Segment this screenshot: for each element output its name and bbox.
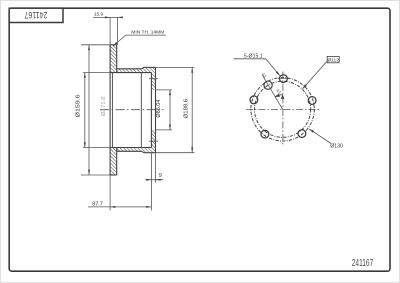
- bump top slope: [142, 67, 144, 68]
- svg-text:Ø159.6: Ø159.6: [76, 94, 82, 117]
- angle arc arrow right: [281, 94, 285, 99]
- ring right face top: [116, 45, 118, 73]
- vertical centerline right view: [282, 71, 284, 145]
- svg-text:15.9: 15.9: [94, 11, 104, 17]
- dimension 87.7 extension left: [109, 175, 111, 211]
- dimension D271.8 line: [88, 45, 90, 175]
- flange bottom edge: [144, 152, 156, 154]
- dimension D188.6 extension bottom: [156, 152, 195, 154]
- arrow 15.9 right: [118, 16, 123, 18]
- bolt hole upper right: [308, 97, 316, 105]
- dimension D159.6 line: [84, 73, 86, 148]
- hole tick top: [278, 78, 289, 80]
- angle arc arrow left: [275, 94, 280, 97]
- arrow D85.04 top: [169, 90, 171, 95]
- hatched region: friction ring bottom: [110, 148, 117, 176]
- arrow D159.6 top: [84, 73, 86, 78]
- svg-text:Ø112: Ø112: [328, 58, 340, 64]
- svg-text:Ø188.6: Ø188.6: [184, 99, 190, 119]
- svg-text:9: 9: [159, 173, 162, 179]
- leader 5-D15.1: [234, 59, 280, 76]
- hatched region: web bottom: [117, 148, 156, 153]
- arrow 9 left: [146, 179, 151, 181]
- ring left face: [109, 45, 111, 175]
- dimension D271.8 extension bottom: [81, 174, 110, 176]
- dimension D159.6 extension top: [83, 72, 110, 74]
- hatched region: friction ring top: [110, 45, 117, 73]
- bolt hole top: [280, 75, 288, 83]
- bolt hole upper left: [250, 96, 258, 104]
- arrow D188.6 top: [191, 67, 193, 72]
- bolt hole axis tick top: [149, 78, 158, 80]
- leader D112: [303, 61, 328, 89]
- bolt hole axis tick bottom: [149, 140, 158, 142]
- dimension D85.04 line: [169, 90, 171, 130]
- hatched region: web top: [117, 67, 156, 72]
- web bottom inner edge: [110, 147, 151, 149]
- dimension 15.9 extension right: [117, 17, 119, 44]
- arrows left view: [84, 16, 193, 208]
- web top inner edge: [110, 72, 151, 74]
- web bottom outer edge: [117, 150, 142, 152]
- dimension 15.9 line: [93, 16, 122, 18]
- arrow D85.04 bottom: [169, 125, 171, 130]
- arrow 87.7 left: [110, 206, 115, 208]
- circle Ø130: [251, 78, 314, 141]
- dimension 15.9 extension left: [109, 17, 111, 44]
- centerline left view: [100, 109, 164, 111]
- dimension 9 extension left / 87.7 extension right: [150, 153, 152, 211]
- dimension D85.04 extension top: [156, 89, 173, 91]
- leader D112 arrow: [303, 84, 307, 89]
- flange top edge: [144, 66, 156, 68]
- bolt circle Ø112: [255, 81, 311, 137]
- bump bottom slope: [142, 151, 144, 152]
- ring bottom edge: [110, 174, 117, 176]
- dimension D188.6 line: [191, 67, 193, 152]
- arrow D188.6 bottom: [191, 147, 193, 152]
- arrow D271.8 bottom: [88, 170, 90, 175]
- leader D130 arrow: [309, 129, 314, 133]
- ring right face bottom: [116, 148, 118, 176]
- svg-text:241167: 241167: [25, 9, 48, 20]
- dimension 87.7 line: [88, 206, 151, 208]
- ring top edge: [110, 44, 117, 46]
- leader 5-D15.1 arrow: [276, 71, 280, 76]
- angle dimension arc: [275, 95, 283, 97]
- dimension 9 extension right: [155, 153, 157, 183]
- title box top-left: [9, 8, 63, 22]
- dimension D85.04 extension bottom: [156, 129, 173, 131]
- dimension D159.6 extension bottom: [83, 147, 110, 149]
- arrow D159.6 bottom: [84, 142, 86, 147]
- arrow D271.8 top: [88, 45, 90, 50]
- svg-text:Ø85.04: Ø85.04: [156, 99, 162, 117]
- svg-text:Ø271.8: Ø271.8: [101, 96, 107, 116]
- leader MIN TH. 14MM: [113, 35, 166, 46]
- angle dimension radial line: [262, 75, 282, 109]
- label box D112: [327, 56, 339, 62]
- web top outer edge: [117, 68, 142, 70]
- arrow 9 right: [156, 179, 161, 181]
- hub wall left face: [150, 73, 152, 148]
- arrow 15.9 left: [105, 16, 110, 18]
- svg-text:87.7: 87.7: [92, 201, 103, 207]
- arrow 87.7 right: [146, 206, 151, 208]
- hub wall right face: [155, 67, 157, 152]
- dimension D271.8 extension top: [81, 44, 110, 46]
- hatched region: hub wall top: [151, 73, 155, 90]
- phantom hole at angle: [264, 81, 272, 89]
- cavity line A: [111, 73, 113, 148]
- leader D130: [309, 129, 331, 144]
- bolt hole lower right: [298, 130, 306, 138]
- dimension 9 line: [146, 179, 164, 181]
- hatched region: hub wall bottom: [151, 130, 155, 148]
- horizontal centerline right view: [246, 108, 319, 110]
- dimension D188.6 extension top: [156, 66, 195, 68]
- leader MIN TH arrow: [113, 42, 118, 46]
- bolt hole lower left: [261, 130, 269, 138]
- cavity line B: [140, 73, 142, 148]
- svg-text:MIN TH. 14MM: MIN TH. 14MM: [131, 30, 164, 36]
- svg-text:241167: 241167: [352, 258, 374, 269]
- svg-text:Ø130: Ø130: [330, 143, 343, 149]
